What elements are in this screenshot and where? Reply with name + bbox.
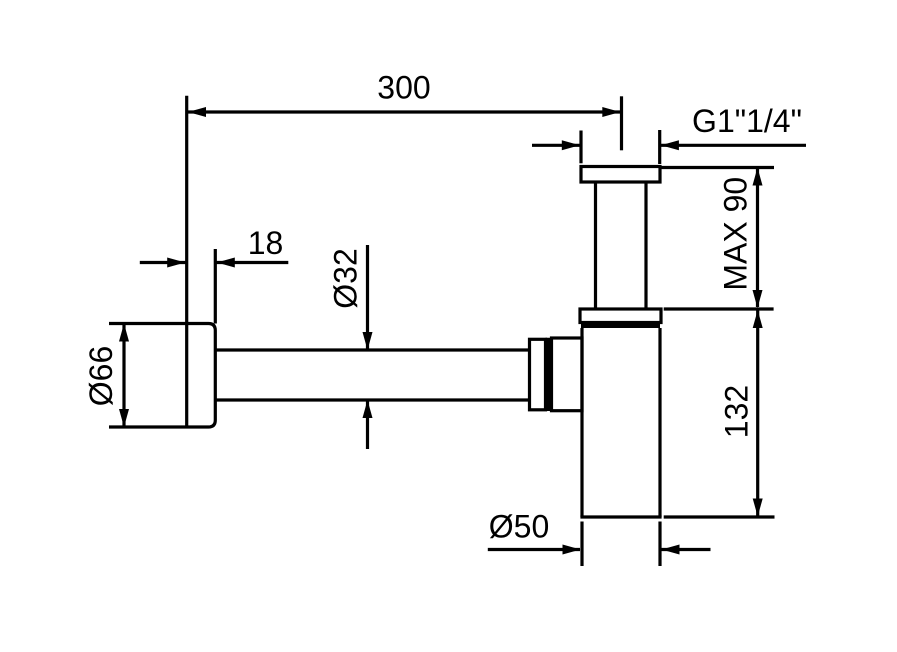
nut body rect xyxy=(552,338,583,411)
dim 300 right extension line xyxy=(620,96,623,150)
dim O66 bottom extension line xyxy=(109,425,187,428)
arrow G1 right pointing left xyxy=(661,140,679,150)
svg-text:132: 132 xyxy=(719,385,755,438)
dim G1 right extension line xyxy=(658,130,661,164)
arrow 300 left xyxy=(188,107,206,117)
wall flange left edge + extension line of dim 300 xyxy=(185,96,188,429)
arrow O32 up xyxy=(363,400,373,418)
dim 18 right tail xyxy=(217,261,289,264)
dim O66 line xyxy=(122,325,125,427)
shared extension line MAX90 bottom / 132 top xyxy=(664,307,774,310)
nut thick divider xyxy=(546,338,552,411)
dim O32 upper line xyxy=(366,245,369,350)
dim O32 lower line xyxy=(366,400,369,449)
dim MAX90 top extension line xyxy=(661,166,774,169)
dim G1 left tail xyxy=(532,144,580,147)
arrow 18 right xyxy=(217,258,235,268)
dim O50 left extension line xyxy=(580,522,583,567)
svg-text:Ø50: Ø50 xyxy=(489,509,549,545)
dim 300 line xyxy=(188,110,620,113)
bottle body top flange xyxy=(580,309,661,323)
svg-text:MAX 90: MAX 90 xyxy=(718,177,754,291)
dim 18 right extension line xyxy=(214,249,217,324)
dim G1 left extension line xyxy=(579,131,582,164)
wall flange (rounded right corners) xyxy=(187,324,216,428)
svg-text:G1"1/4": G1"1/4" xyxy=(692,103,802,139)
top pipe connector flange G1 xyxy=(581,167,660,183)
arrow 18 left xyxy=(167,258,185,268)
dim 132 line xyxy=(756,310,759,516)
svg-text:Ø66: Ø66 xyxy=(83,346,119,406)
dim G1 right tail xyxy=(661,144,806,147)
dim O50 left tail xyxy=(488,548,580,551)
dim O50 right tail xyxy=(662,548,711,551)
arrow MAX90 up xyxy=(753,168,763,186)
horizontal pipe top line xyxy=(215,348,530,351)
svg-text:300: 300 xyxy=(377,70,430,106)
dim MAX90 line xyxy=(756,169,759,308)
dim O66 top extension line xyxy=(109,322,187,325)
arrow 132 up xyxy=(753,310,763,328)
arrow O50 right pointing left xyxy=(662,545,680,555)
bottle body left side xyxy=(580,328,583,517)
bottle body gasket thick band xyxy=(581,323,660,329)
vertical pipe left line xyxy=(594,182,597,309)
arrow MAX90 down xyxy=(753,290,763,308)
bottle body bottom edge xyxy=(580,515,661,518)
dim 132 bottom extension line xyxy=(664,515,775,518)
nut ring rect xyxy=(530,339,546,410)
dim 18 left tail xyxy=(140,261,186,264)
arrow G1 left pointing right xyxy=(562,140,580,150)
svg-text:Ø32: Ø32 xyxy=(328,248,364,308)
arrow O32 down xyxy=(363,332,373,350)
arrow 132 down xyxy=(753,499,763,517)
arrow 300 right xyxy=(602,107,620,117)
bottle body right side xyxy=(658,328,661,517)
horizontal pipe bottom line xyxy=(215,398,530,401)
svg-text:18: 18 xyxy=(248,225,284,261)
vertical pipe right line xyxy=(644,182,647,309)
arrow O66 down xyxy=(119,409,129,427)
dim O50 right extension line xyxy=(658,522,661,567)
arrow O50 left pointing right xyxy=(563,545,581,555)
arrow O66 up xyxy=(119,324,129,342)
